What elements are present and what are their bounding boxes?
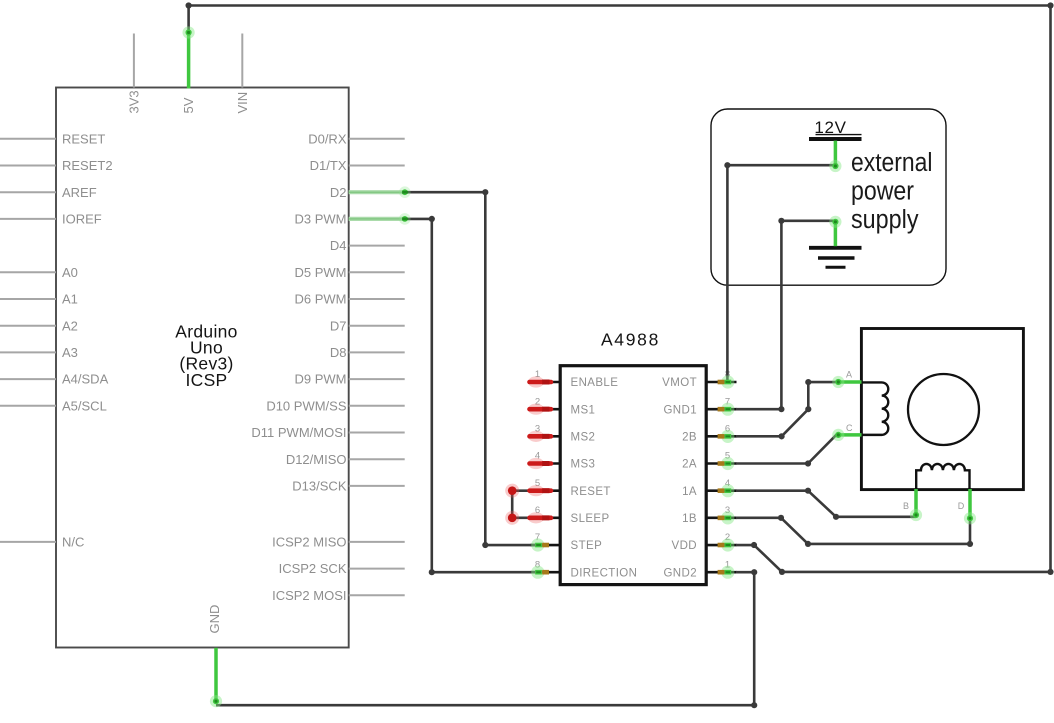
- svg-text:RESET: RESET: [62, 131, 105, 146]
- svg-text:1B: 1B: [682, 513, 697, 525]
- svg-text:D5 PWM: D5 PWM: [295, 265, 347, 280]
- svg-text:A4/SDA: A4/SDA: [62, 372, 109, 387]
- svg-text:D4: D4: [330, 238, 347, 253]
- svg-text:A5/SCL: A5/SCL: [62, 398, 107, 413]
- svg-text:ICSP2 SCK: ICSP2 SCK: [279, 561, 347, 576]
- svg-text:D0/RX: D0/RX: [308, 131, 347, 146]
- svg-text:1A: 1A: [682, 486, 697, 498]
- svg-text:GND1: GND1: [663, 404, 697, 416]
- svg-text:VMOT: VMOT: [662, 377, 697, 389]
- svg-text:ICSP2 MISO: ICSP2 MISO: [272, 535, 346, 550]
- svg-text:VDD: VDD: [672, 540, 697, 552]
- svg-text:A0: A0: [62, 265, 78, 280]
- svg-text:power: power: [851, 178, 914, 206]
- svg-text:D1/TX: D1/TX: [310, 158, 347, 173]
- svg-text:VIN: VIN: [235, 92, 250, 114]
- svg-text:D: D: [958, 501, 965, 511]
- svg-text:D6 PWM: D6 PWM: [295, 292, 347, 307]
- svg-text:D3 PWM: D3 PWM: [295, 212, 347, 227]
- svg-text:IOREF: IOREF: [62, 212, 102, 227]
- svg-text:C: C: [846, 423, 853, 433]
- svg-text:D2: D2: [330, 185, 347, 200]
- svg-text:external: external: [851, 149, 933, 177]
- svg-text:RESET: RESET: [571, 486, 611, 498]
- svg-text:D9 PWM: D9 PWM: [295, 372, 347, 387]
- svg-text:ICSP: ICSP: [185, 370, 227, 390]
- svg-text:D13/SCK: D13/SCK: [292, 479, 347, 494]
- svg-text:A2: A2: [62, 318, 78, 333]
- svg-text:2B: 2B: [682, 432, 697, 444]
- svg-text:MS1: MS1: [571, 404, 596, 416]
- svg-text:D8: D8: [330, 345, 347, 360]
- svg-text:RESET2: RESET2: [62, 158, 113, 173]
- svg-text:N/C: N/C: [62, 535, 84, 550]
- svg-text:STEP: STEP: [571, 540, 603, 552]
- svg-text:B: B: [903, 501, 909, 511]
- svg-text:MS3: MS3: [571, 459, 596, 471]
- svg-text:ENABLE: ENABLE: [571, 377, 619, 389]
- svg-text:5V: 5V: [181, 97, 196, 113]
- svg-text:A3: A3: [62, 345, 78, 360]
- svg-text:supply: supply: [851, 206, 919, 234]
- svg-text:ICSP2 MOSI: ICSP2 MOSI: [272, 588, 346, 603]
- svg-text:GND2: GND2: [663, 567, 697, 579]
- svg-text:D11 PWM/MOSI: D11 PWM/MOSI: [251, 425, 346, 440]
- svg-text:A: A: [846, 370, 852, 380]
- svg-text:A1: A1: [62, 292, 78, 307]
- svg-text:D12/MISO: D12/MISO: [286, 452, 347, 467]
- svg-text:3V3: 3V3: [127, 90, 142, 113]
- svg-text:AREF: AREF: [62, 185, 97, 200]
- svg-text:2A: 2A: [682, 459, 697, 471]
- svg-text:MS2: MS2: [571, 432, 596, 444]
- svg-text:D10 PWM/SS: D10 PWM/SS: [266, 398, 347, 413]
- svg-text:GND: GND: [207, 605, 222, 634]
- svg-text:D7: D7: [330, 318, 347, 333]
- svg-text:A4988: A4988: [601, 330, 660, 350]
- svg-text:SLEEP: SLEEP: [571, 513, 610, 525]
- svg-text:DIRECTION: DIRECTION: [571, 567, 638, 579]
